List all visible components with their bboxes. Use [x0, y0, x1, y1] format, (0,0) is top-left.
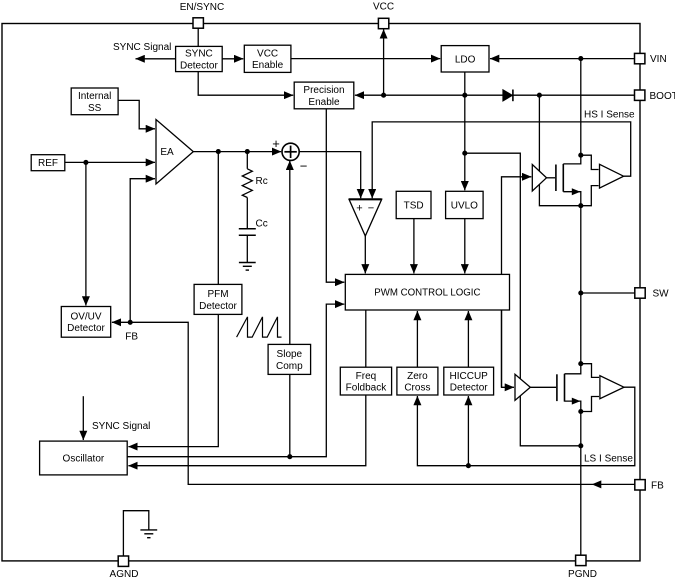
svg-text:Comp: Comp [276, 361, 303, 372]
svg-text:Internal: Internal [78, 91, 111, 102]
svg-text:SYNC: SYNC [185, 49, 213, 60]
svg-text:LDO: LDO [455, 54, 476, 65]
svg-text:Detector: Detector [450, 383, 488, 394]
svg-text:OV/UV: OV/UV [70, 312, 101, 323]
svg-text:SW: SW [653, 289, 670, 300]
svg-text:EN/SYNC: EN/SYNC [180, 2, 224, 13]
svg-text:VIN: VIN [650, 54, 667, 65]
svg-text:HICCUP: HICCUP [450, 371, 489, 382]
svg-text:Oscillator: Oscillator [63, 454, 105, 465]
svg-text:PFM: PFM [207, 289, 228, 300]
svg-text:BOOT: BOOT [650, 91, 675, 102]
svg-text:SYNC Signal: SYNC Signal [113, 42, 171, 53]
svg-text:Enable: Enable [252, 60, 284, 71]
svg-text:VCC: VCC [373, 2, 394, 13]
svg-text:Cc: Cc [256, 219, 268, 230]
svg-text:FB: FB [651, 481, 664, 492]
svg-text:Precision: Precision [303, 85, 344, 96]
svg-text:REF: REF [38, 158, 58, 169]
svg-text:Enable: Enable [308, 97, 340, 108]
svg-text:Rc: Rc [256, 176, 268, 187]
svg-text:Zero: Zero [407, 371, 428, 382]
svg-text:FB: FB [125, 332, 138, 343]
svg-text:+: + [356, 203, 362, 215]
svg-text:PWM CONTROL LOGIC: PWM CONTROL LOGIC [374, 288, 480, 299]
svg-text:Detector: Detector [67, 323, 105, 334]
svg-text:Detector: Detector [199, 301, 237, 312]
svg-text:Foldback: Foldback [346, 383, 388, 394]
svg-text:SYNC Signal: SYNC Signal [92, 421, 150, 432]
svg-text:VCC: VCC [257, 49, 278, 60]
svg-text:HS I Sense: HS I Sense [584, 110, 635, 121]
svg-text:AGND: AGND [110, 569, 139, 580]
svg-text:Detector: Detector [180, 60, 218, 71]
svg-text:Slope: Slope [277, 349, 303, 360]
svg-text:+: + [272, 136, 280, 151]
svg-text:Cross: Cross [404, 383, 430, 394]
svg-text:Freq: Freq [356, 371, 377, 382]
svg-text:−: − [368, 203, 374, 215]
svg-text:TSD: TSD [404, 201, 424, 212]
svg-text:SS: SS [88, 103, 102, 114]
svg-text:EA: EA [160, 147, 174, 158]
svg-text:PGND: PGND [568, 569, 597, 580]
svg-text:LS I Sense: LS I Sense [584, 454, 633, 465]
svg-text:−: − [300, 159, 308, 174]
svg-text:UVLO: UVLO [451, 201, 478, 212]
